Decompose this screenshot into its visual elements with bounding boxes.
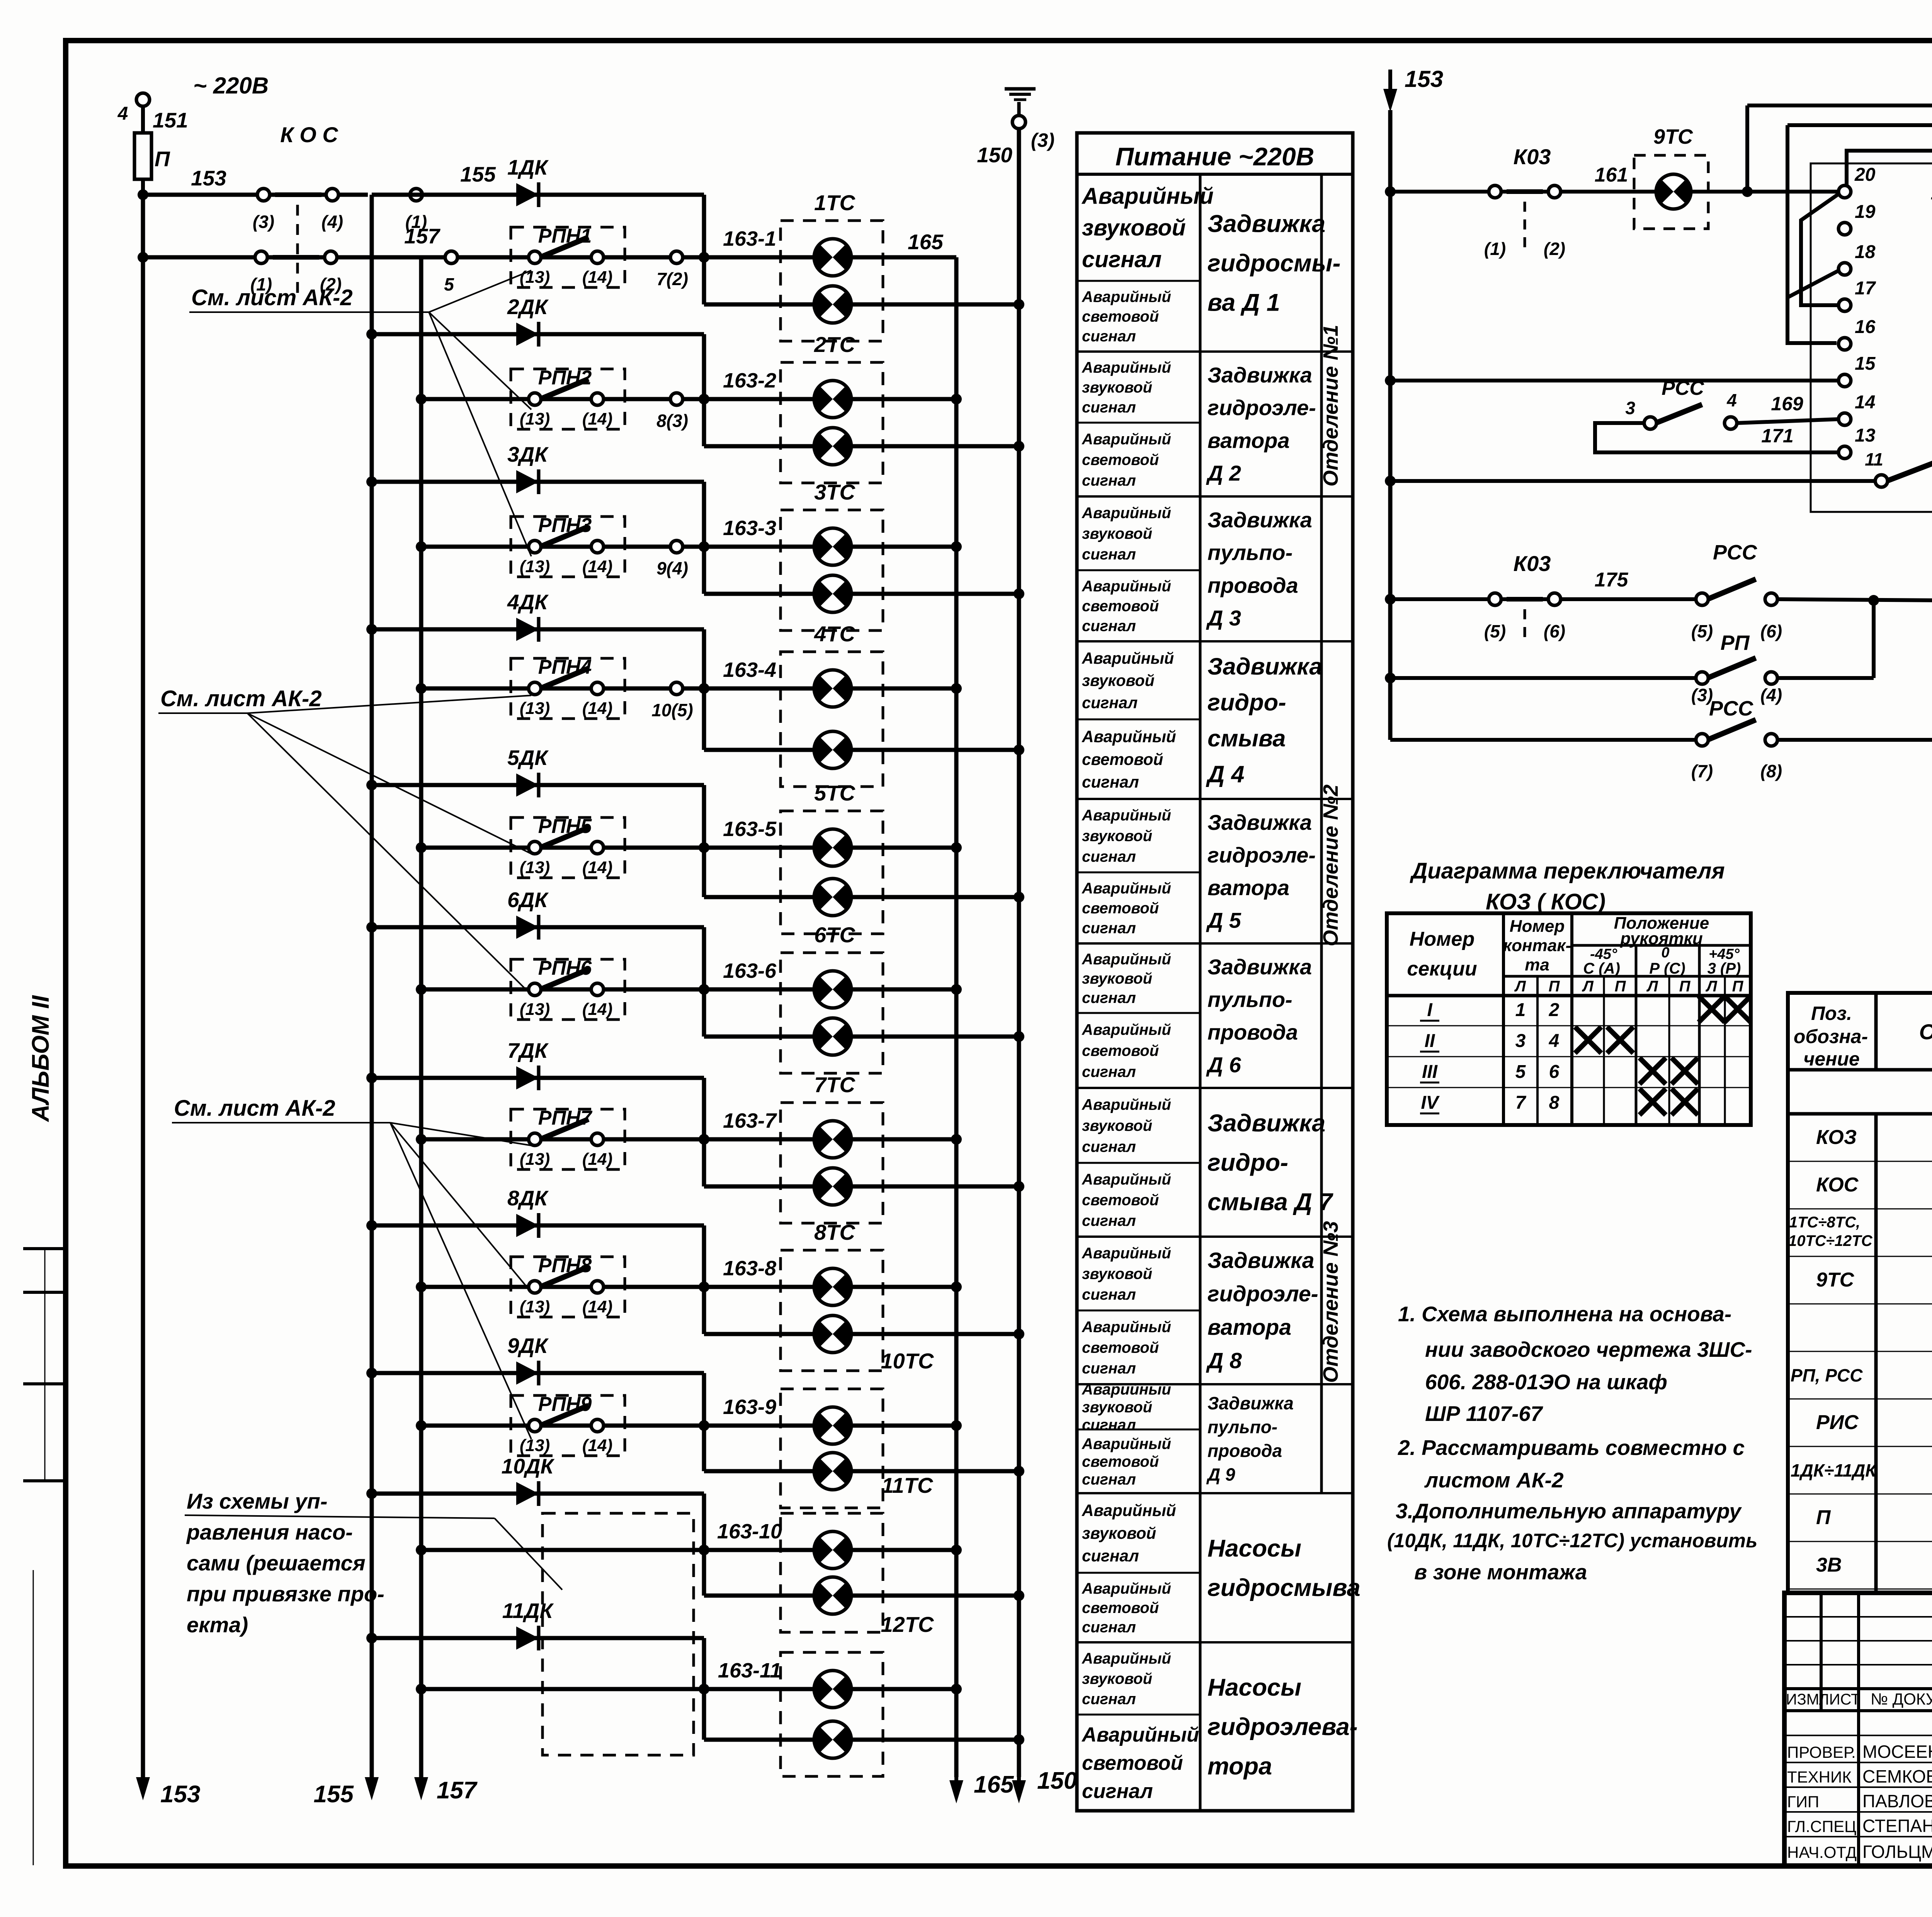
svg-text:7: 7 bbox=[1515, 1093, 1527, 1113]
svg-text:гидро-: гидро- bbox=[1207, 689, 1286, 716]
svg-text:световой: световой bbox=[1082, 1599, 1159, 1616]
svg-text:(4): (4) bbox=[1760, 685, 1782, 705]
svg-text:секции: секции bbox=[1407, 958, 1477, 980]
svg-text:Аварийный: Аварийный bbox=[1082, 1021, 1171, 1038]
svg-text:(13): (13) bbox=[520, 1297, 550, 1316]
svg-text:Задвижка: Задвижка bbox=[1207, 955, 1312, 979]
svg-text:(2): (2) bbox=[1544, 239, 1565, 259]
svg-text:4: 4 bbox=[1726, 390, 1737, 410]
svg-text:РСС: РСС bbox=[1713, 541, 1757, 564]
svg-text:ГИП: ГИП bbox=[1787, 1793, 1819, 1811]
svg-text:5: 5 bbox=[1515, 1062, 1526, 1082]
svg-text:Задвижка: Задвижка bbox=[1207, 1248, 1314, 1273]
svg-text:Л: Л bbox=[1705, 978, 1718, 995]
svg-text:ИЗМ: ИЗМ bbox=[1786, 1691, 1819, 1708]
svg-text:163-2: 163-2 bbox=[723, 369, 776, 392]
svg-text:(6): (6) bbox=[1760, 621, 1782, 641]
svg-text:7ТС: 7ТС bbox=[814, 1072, 855, 1097]
svg-text:сигнал: сигнал bbox=[1082, 694, 1138, 712]
svg-text:Из схемы уп-: Из схемы уп- bbox=[187, 1489, 328, 1513]
svg-text:(13): (13) bbox=[520, 268, 550, 287]
svg-text:8ДК: 8ДК bbox=[507, 1186, 549, 1210]
svg-text:ва Д 1: ва Д 1 bbox=[1207, 289, 1280, 316]
svg-text:153: 153 bbox=[1405, 66, 1443, 92]
svg-text:Аварийный: Аварийный bbox=[1082, 807, 1171, 824]
svg-text:равления насо-: равления насо- bbox=[186, 1520, 353, 1544]
svg-text:III: III bbox=[1422, 1062, 1438, 1082]
svg-text:П: П bbox=[1615, 978, 1626, 995]
svg-text:2. Рассматривать совместно с: 2. Рассматривать совместно с bbox=[1398, 1436, 1745, 1460]
svg-text:звуковой: звуковой bbox=[1082, 1117, 1152, 1134]
svg-text:9(4): 9(4) bbox=[656, 558, 688, 578]
svg-text:пульпо-: пульпо- bbox=[1207, 987, 1293, 1011]
svg-text:К О С: К О С bbox=[280, 122, 338, 147]
svg-text:153: 153 bbox=[160, 1781, 200, 1808]
svg-text:световой: световой bbox=[1082, 308, 1159, 325]
svg-text:гидроэлева-: гидроэлева- bbox=[1207, 1713, 1358, 1740]
svg-text:4ДК: 4ДК bbox=[507, 590, 549, 614]
svg-text:165: 165 bbox=[908, 230, 944, 254]
svg-text:9ТС: 9ТС bbox=[1816, 1269, 1855, 1291]
svg-text:Насосы: Насосы bbox=[1207, 1674, 1301, 1701]
svg-text:1ТС÷8ТС,: 1ТС÷8ТС, bbox=[1789, 1214, 1860, 1231]
svg-text:РПН9: РПН9 bbox=[538, 1393, 592, 1416]
svg-text:13: 13 bbox=[1855, 425, 1876, 446]
svg-text:(1): (1) bbox=[1484, 239, 1506, 259]
svg-text:Диаграмма переключателя: Диаграмма переключателя bbox=[1409, 858, 1725, 884]
svg-text:163-11: 163-11 bbox=[718, 1659, 781, 1682]
svg-text:нии заводского чертежа 3ШС-: нии заводского чертежа 3ШС- bbox=[1425, 1337, 1752, 1361]
svg-text:11ТС: 11ТС bbox=[882, 1473, 934, 1497]
svg-text:Р (С): Р (С) bbox=[1649, 960, 1685, 977]
svg-text:П: П bbox=[1816, 1506, 1831, 1529]
svg-text:сигнал: сигнал bbox=[1082, 1547, 1139, 1565]
svg-text:гидросмы-: гидросмы- bbox=[1207, 250, 1340, 277]
svg-text:163-6: 163-6 bbox=[723, 959, 777, 982]
svg-text:звуковой: звуковой bbox=[1082, 828, 1152, 845]
svg-text:ТЕХНИК: ТЕХНИК bbox=[1787, 1768, 1852, 1786]
svg-text:(14): (14) bbox=[582, 1150, 612, 1169]
svg-text:П: П bbox=[155, 147, 170, 171]
svg-text:Аварийный: Аварийный bbox=[1082, 431, 1171, 448]
svg-text:15: 15 bbox=[1855, 353, 1876, 374]
svg-text:тора: тора bbox=[1207, 1753, 1272, 1780]
svg-text:19: 19 bbox=[1855, 202, 1876, 222]
svg-text:8(3): 8(3) bbox=[656, 411, 688, 431]
svg-text:сигнал: сигнал bbox=[1082, 247, 1162, 272]
svg-text:ГЛ.СПЕЦ.: ГЛ.СПЕЦ. bbox=[1787, 1817, 1861, 1835]
svg-text:сигнал: сигнал bbox=[1082, 773, 1139, 791]
svg-text:сигнал: сигнал bbox=[1082, 1619, 1136, 1636]
svg-text:звуковой: звуковой bbox=[1082, 1524, 1156, 1542]
svg-text:0: 0 bbox=[1661, 945, 1669, 961]
svg-text:провода: провода bbox=[1207, 1020, 1298, 1044]
svg-text:КОС: КОС bbox=[1816, 1174, 1859, 1196]
svg-text:(5): (5) bbox=[1484, 621, 1506, 641]
svg-text:ПАВЛОВА: ПАВЛОВА bbox=[1862, 1791, 1932, 1811]
svg-text:СЕМКОВА: СЕМКОВА bbox=[1862, 1766, 1932, 1786]
svg-text:РСС: РСС bbox=[1709, 697, 1753, 720]
svg-text:РПН4: РПН4 bbox=[538, 656, 592, 678]
svg-text:3ДК: 3ДК bbox=[507, 442, 549, 466]
svg-text:5ТС: 5ТС bbox=[814, 781, 855, 805]
svg-text:Аварийный: Аварийный bbox=[1082, 649, 1174, 667]
svg-text:1ДК÷11ДК: 1ДК÷11ДК bbox=[1791, 1460, 1877, 1480]
svg-text:(5): (5) bbox=[1691, 621, 1713, 641]
svg-text:4ТС: 4ТС bbox=[814, 622, 855, 646]
svg-text:163-8: 163-8 bbox=[723, 1257, 776, 1280]
svg-text:4: 4 bbox=[117, 104, 128, 124]
svg-text:световой: световой bbox=[1082, 750, 1163, 768]
svg-text:606. 288-01ЭО на шкаф: 606. 288-01ЭО на шкаф bbox=[1425, 1370, 1667, 1394]
svg-text:чение: чение bbox=[1803, 1048, 1860, 1070]
svg-text:1ДК: 1ДК bbox=[507, 155, 549, 179]
svg-text:Аварийный: Аварийный bbox=[1081, 184, 1214, 209]
svg-text:РПН2: РПН2 bbox=[538, 367, 592, 389]
svg-text:световой: световой bbox=[1082, 1339, 1159, 1356]
svg-text:световой: световой bbox=[1082, 452, 1159, 469]
svg-text:гидроэле-: гидроэле- bbox=[1207, 843, 1316, 867]
svg-text:звуковой: звуковой bbox=[1082, 379, 1152, 396]
svg-text:П: П bbox=[1679, 978, 1691, 995]
svg-text:световой: световой bbox=[1082, 1192, 1159, 1209]
svg-text:Насосы: Насосы bbox=[1207, 1535, 1301, 1562]
svg-text:(4): (4) bbox=[321, 212, 343, 232]
svg-text:звуковой: звуковой bbox=[1082, 1266, 1152, 1283]
svg-text:175: 175 bbox=[1595, 569, 1629, 591]
svg-text:ватора: ватора bbox=[1207, 876, 1289, 900]
svg-text:163-3: 163-3 bbox=[723, 517, 776, 540]
svg-text:163-1: 163-1 bbox=[723, 227, 776, 250]
svg-text:сами (решается: сами (решается bbox=[187, 1551, 366, 1575]
svg-text:7(2): 7(2) bbox=[656, 269, 688, 289]
svg-text:СТЕПАНЕНКО: СТЕПАНЕНКО bbox=[1862, 1816, 1932, 1836]
svg-text:К03: К03 bbox=[1514, 144, 1551, 169]
svg-text:1ТС: 1ТС bbox=[814, 190, 855, 215]
svg-text:Аварийный: Аварийный bbox=[1082, 880, 1171, 897]
svg-text:смыва: смыва bbox=[1207, 725, 1286, 752]
svg-text:ПРОВЕР.: ПРОВЕР. bbox=[1787, 1743, 1856, 1761]
svg-text:№ ДОКУМ.: № ДОКУМ. bbox=[1871, 1690, 1932, 1708]
svg-text:звуковой: звуковой bbox=[1082, 525, 1152, 542]
svg-text:ГОЛЬЦМАН: ГОЛЬЦМАН bbox=[1862, 1842, 1932, 1862]
svg-text:пульпо-: пульпо- bbox=[1207, 540, 1293, 565]
svg-text:АЛЬБОМ II: АЛЬБОМ II bbox=[27, 995, 54, 1122]
svg-text:листом АК-2: листом АК-2 bbox=[1424, 1468, 1564, 1492]
svg-text:(13): (13) bbox=[520, 410, 550, 428]
svg-text:Аварийный: Аварийный bbox=[1082, 1319, 1171, 1336]
svg-text:Д 8: Д 8 bbox=[1206, 1349, 1242, 1373]
svg-text:(10ДК, 11ДК, 10ТС÷12ТС) устано: (10ДК, 11ДК, 10ТС÷12ТС) установить bbox=[1387, 1530, 1757, 1552]
svg-text:РПН6: РПН6 bbox=[538, 957, 592, 979]
svg-text:1: 1 bbox=[1515, 1000, 1526, 1020]
svg-text:Обозначение: Обозначение bbox=[1919, 1020, 1932, 1044]
svg-text:сигнал: сигнал bbox=[1082, 989, 1136, 1006]
svg-text:РП: РП bbox=[1721, 631, 1750, 654]
svg-text:при привязке про-: при привязке про- bbox=[187, 1582, 384, 1606]
svg-text:163-9: 163-9 bbox=[723, 1395, 776, 1419]
svg-text:2: 2 bbox=[1549, 1000, 1560, 1020]
svg-text:~ 220В: ~ 220В bbox=[193, 73, 269, 99]
svg-text:ватора: ватора bbox=[1207, 428, 1290, 452]
svg-text:11ДК: 11ДК bbox=[502, 1599, 554, 1623]
svg-text:МОСЕЕНКО: МОСЕЕНКО bbox=[1862, 1742, 1932, 1762]
svg-text:ЛИСТ: ЛИСТ bbox=[1819, 1691, 1861, 1708]
svg-text:3.Дополнительную аппаратуру: 3.Дополнительную аппаратуру bbox=[1396, 1499, 1742, 1523]
svg-text:Д 2: Д 2 bbox=[1206, 461, 1241, 485]
svg-text:163-5: 163-5 bbox=[723, 817, 777, 841]
svg-text:Задвижка: Задвижка bbox=[1207, 811, 1312, 834]
svg-text:10ДК: 10ДК bbox=[502, 1454, 555, 1478]
svg-text:(13): (13) bbox=[520, 1436, 550, 1455]
svg-text:Д 9: Д 9 bbox=[1206, 1464, 1235, 1484]
svg-text:Аварийный: Аварийный bbox=[1082, 951, 1171, 968]
svg-text:(14): (14) bbox=[582, 1297, 612, 1316]
svg-text:9ТС: 9ТС bbox=[1653, 125, 1693, 148]
svg-text:Аварийный: Аварийный bbox=[1082, 578, 1171, 595]
svg-text:157: 157 bbox=[404, 224, 440, 248]
svg-text:звуковой: звуковой bbox=[1082, 215, 1186, 241]
svg-text:сигнал: сигнал bbox=[1082, 1691, 1136, 1708]
svg-text:Аварийный: Аварийный bbox=[1081, 1723, 1199, 1746]
svg-text:(13): (13) bbox=[520, 858, 550, 877]
svg-text:сигнал: сигнал bbox=[1082, 919, 1136, 936]
svg-text:гидросмыва: гидросмыва bbox=[1207, 1574, 1361, 1601]
svg-text:Д 4: Д 4 bbox=[1206, 761, 1245, 788]
svg-text:П: П bbox=[1732, 978, 1744, 995]
svg-text:(14): (14) bbox=[582, 858, 612, 877]
svg-text:(6): (6) bbox=[1544, 621, 1565, 641]
svg-text:Аварийный: Аварийный bbox=[1082, 1501, 1176, 1519]
svg-text:Аварийный: Аварийный bbox=[1082, 359, 1171, 376]
svg-text:в зоне монтажа: в зоне монтажа bbox=[1414, 1560, 1587, 1584]
svg-text:II: II bbox=[1425, 1031, 1435, 1051]
svg-text:6ДК: 6ДК bbox=[507, 888, 549, 912]
svg-text:Задвижка: Задвижка bbox=[1207, 508, 1312, 532]
svg-text:КОЗ: КОЗ bbox=[1816, 1126, 1857, 1149]
svg-text:сигнал: сигнал bbox=[1082, 1780, 1153, 1803]
svg-text:(14): (14) bbox=[582, 1000, 612, 1019]
svg-text:151: 151 bbox=[153, 108, 188, 132]
svg-text:3 (Р): 3 (Р) bbox=[1708, 960, 1741, 977]
svg-text:171: 171 bbox=[1761, 425, 1793, 447]
svg-text:смыва Д 7: смыва Д 7 bbox=[1207, 1189, 1333, 1216]
svg-text:сигнал: сигнал bbox=[1082, 1417, 1136, 1434]
svg-text:161: 161 bbox=[1595, 164, 1628, 186]
svg-text:5: 5 bbox=[444, 274, 454, 294]
svg-text:та: та bbox=[1525, 955, 1549, 974]
svg-text:См. лист АК-2: См. лист АК-2 bbox=[160, 686, 322, 711]
svg-text:169: 169 bbox=[1771, 393, 1803, 415]
svg-text:Отделение №3: Отделение №3 bbox=[1319, 1221, 1342, 1383]
svg-text:(13): (13) bbox=[520, 557, 550, 576]
svg-text:Аварийный: Аварийный bbox=[1082, 1650, 1171, 1667]
svg-text:НАЧ.ОТД: НАЧ.ОТД bbox=[1787, 1843, 1857, 1861]
svg-text:екта): екта) bbox=[187, 1613, 248, 1637]
svg-text:Л: Л bbox=[1646, 978, 1658, 995]
svg-text:Аварийный: Аварийный bbox=[1082, 505, 1171, 522]
svg-text:сигнал: сигнал bbox=[1082, 1212, 1136, 1229]
svg-text:сигнал: сигнал bbox=[1082, 546, 1136, 563]
svg-text:световой: световой bbox=[1082, 1752, 1183, 1774]
svg-text:2ТС: 2ТС bbox=[814, 332, 855, 357]
svg-text:11: 11 bbox=[1865, 449, 1883, 469]
svg-text:(14): (14) bbox=[582, 557, 612, 576]
svg-text:150: 150 bbox=[1037, 1767, 1077, 1794]
svg-text:10ТС÷12ТС: 10ТС÷12ТС bbox=[1788, 1232, 1873, 1249]
svg-text:С (А): С (А) bbox=[1583, 960, 1620, 977]
svg-text:1. Схема выполнена на основа-: 1. Схема выполнена на основа- bbox=[1398, 1302, 1731, 1326]
svg-text:РПН8: РПН8 bbox=[538, 1254, 592, 1277]
svg-text:Задвижка: Задвижка bbox=[1207, 1393, 1294, 1413]
svg-text:(7): (7) bbox=[1691, 761, 1713, 781]
svg-text:звуковой: звуковой bbox=[1082, 1399, 1152, 1416]
svg-text:7ДК: 7ДК bbox=[507, 1038, 549, 1062]
svg-text:световой: световой bbox=[1082, 1453, 1159, 1470]
svg-text:гидроэле-: гидроэле- bbox=[1207, 1282, 1318, 1307]
svg-text:РПН1: РПН1 bbox=[538, 225, 592, 247]
svg-text:ватора: ватора bbox=[1207, 1315, 1291, 1340]
svg-text:8: 8 bbox=[1549, 1093, 1560, 1113]
svg-text:РП, РСС: РП, РСС bbox=[1791, 1365, 1863, 1385]
svg-text:16: 16 bbox=[1855, 317, 1876, 337]
svg-text:сигнал: сигнал bbox=[1082, 1471, 1136, 1488]
svg-text:Номер: Номер bbox=[1510, 917, 1565, 936]
svg-text:гидро-: гидро- bbox=[1207, 1149, 1288, 1176]
svg-text:I: I bbox=[1427, 1000, 1433, 1020]
svg-text:сигнал: сигнал bbox=[1082, 617, 1136, 634]
svg-text:Л: Л bbox=[1514, 978, 1526, 995]
svg-text:сигнал: сигнал bbox=[1082, 1360, 1136, 1377]
svg-text:КОЗ ( КОС): КОЗ ( КОС) bbox=[1486, 889, 1605, 914]
svg-text:3: 3 bbox=[1515, 1031, 1526, 1051]
svg-text:Поз.: Поз. bbox=[1811, 1003, 1852, 1024]
svg-text:163-4: 163-4 bbox=[723, 658, 776, 681]
svg-text:10(5): 10(5) bbox=[651, 700, 693, 720]
svg-text:(13): (13) bbox=[520, 1150, 550, 1169]
svg-text:пульпо-: пульпо- bbox=[1207, 1417, 1277, 1437]
svg-text:(3): (3) bbox=[253, 212, 274, 232]
svg-text:световой: световой bbox=[1082, 598, 1159, 615]
svg-text:10: 10 bbox=[1931, 183, 1932, 204]
svg-text:звуковой: звуковой bbox=[1082, 1671, 1152, 1688]
svg-text:Д 5: Д 5 bbox=[1206, 908, 1242, 932]
svg-text:световой: световой bbox=[1082, 900, 1159, 917]
svg-text:(13): (13) bbox=[520, 699, 550, 718]
svg-text:157: 157 bbox=[437, 1777, 478, 1804]
svg-text:IV: IV bbox=[1421, 1093, 1440, 1113]
svg-text:П: П bbox=[1549, 978, 1560, 995]
svg-text:сигнал: сигнал bbox=[1082, 1064, 1136, 1081]
svg-text:14: 14 bbox=[1855, 392, 1875, 413]
svg-text:9ДК: 9ДК bbox=[507, 1334, 549, 1358]
svg-text:Задвижка: Задвижка bbox=[1207, 363, 1312, 387]
svg-text:163-10: 163-10 bbox=[717, 1520, 782, 1543]
svg-text:Аварийный: Аварийный bbox=[1082, 1436, 1171, 1453]
svg-text:сигнал: сигнал bbox=[1082, 472, 1136, 489]
svg-text:Аварийный: Аварийный bbox=[1082, 289, 1171, 306]
svg-text:Аварийный: Аварийный bbox=[1082, 1381, 1171, 1398]
svg-text:контак-: контак- bbox=[1503, 936, 1571, 955]
svg-text:обозна-: обозна- bbox=[1794, 1026, 1868, 1047]
svg-text:Отделение №2: Отделение №2 bbox=[1319, 785, 1342, 947]
svg-text:(14): (14) bbox=[582, 410, 612, 428]
svg-text:(3): (3) bbox=[1031, 129, 1054, 151]
svg-text:провода: провода bbox=[1207, 1441, 1282, 1461]
svg-text:гидроэле-: гидроэле- bbox=[1207, 396, 1316, 420]
svg-text:3В: 3В bbox=[1816, 1554, 1842, 1576]
svg-text:(14): (14) bbox=[582, 699, 612, 718]
svg-text:ШР 1107-67: ШР 1107-67 bbox=[1425, 1402, 1543, 1426]
svg-text:провода: провода bbox=[1207, 573, 1298, 597]
svg-text:6ТС: 6ТС bbox=[814, 923, 855, 947]
svg-text:8ТС: 8ТС bbox=[814, 1220, 855, 1244]
svg-text:Питание ~220В: Питание ~220В bbox=[1116, 142, 1315, 171]
svg-text:Задвижка: Задвижка bbox=[1207, 653, 1322, 680]
svg-text:20: 20 bbox=[1854, 165, 1876, 185]
svg-text:150: 150 bbox=[977, 143, 1012, 167]
svg-text:155: 155 bbox=[460, 162, 496, 186]
svg-text:3: 3 bbox=[1625, 398, 1635, 418]
svg-text:153: 153 bbox=[191, 166, 226, 190]
svg-text:РСС: РСС bbox=[1662, 377, 1704, 399]
svg-text:Задвижка: Задвижка bbox=[1207, 1110, 1325, 1137]
svg-text:5ДК: 5ДК bbox=[507, 746, 549, 770]
svg-text:155: 155 bbox=[314, 1781, 354, 1808]
svg-text:Задвижка: Задвижка bbox=[1207, 211, 1325, 238]
svg-text:К03: К03 bbox=[1514, 551, 1551, 576]
svg-text:6: 6 bbox=[1549, 1062, 1560, 1082]
svg-text:РПН3: РПН3 bbox=[538, 514, 592, 537]
svg-text:Д 3: Д 3 bbox=[1206, 606, 1241, 630]
svg-text:3ТС: 3ТС bbox=[814, 480, 855, 504]
svg-text:звуковой: звуковой bbox=[1082, 671, 1155, 689]
svg-text:(13): (13) bbox=[520, 1000, 550, 1019]
svg-text:4: 4 bbox=[1549, 1031, 1560, 1051]
svg-text:165: 165 bbox=[974, 1771, 1014, 1798]
svg-text:световой: световой bbox=[1082, 1042, 1159, 1059]
svg-text:Аварийный: Аварийный bbox=[1082, 727, 1176, 746]
svg-text:РПН5: РПН5 bbox=[538, 815, 592, 838]
svg-text:(14): (14) bbox=[582, 268, 612, 287]
svg-text:163-7: 163-7 bbox=[723, 1109, 777, 1132]
svg-text:17: 17 bbox=[1855, 278, 1876, 299]
svg-text:См. лист АК-2: См. лист АК-2 bbox=[174, 1096, 335, 1121]
svg-text:Отделение №1: Отделение №1 bbox=[1319, 325, 1342, 487]
svg-text:(14): (14) bbox=[582, 1436, 612, 1455]
svg-text:Аварийный: Аварийный bbox=[1082, 1580, 1171, 1597]
svg-text:Номер: Номер bbox=[1410, 928, 1475, 950]
svg-text:Аварийный: Аварийный bbox=[1082, 1171, 1171, 1188]
svg-text:сигнал: сигнал bbox=[1082, 1139, 1136, 1156]
svg-text:См. лист АК-2: См. лист АК-2 bbox=[191, 285, 353, 310]
svg-text:сигнал: сигнал bbox=[1082, 1286, 1136, 1303]
svg-text:Л: Л bbox=[1582, 978, 1594, 995]
svg-text:12ТС: 12ТС bbox=[881, 1612, 934, 1637]
svg-text:сигнал: сигнал bbox=[1082, 848, 1136, 865]
svg-text:сигнал: сигнал bbox=[1082, 328, 1136, 345]
svg-text:сигнал: сигнал bbox=[1082, 399, 1136, 416]
svg-text:Д 6: Д 6 bbox=[1206, 1053, 1242, 1077]
svg-text:Аварийный: Аварийный bbox=[1082, 1245, 1171, 1262]
svg-text:РИС: РИС bbox=[1816, 1411, 1859, 1434]
svg-text:18: 18 bbox=[1855, 242, 1876, 262]
svg-text:(8): (8) bbox=[1760, 761, 1782, 781]
svg-text:2ДК: 2ДК bbox=[507, 295, 549, 319]
svg-text:Аварийный: Аварийный bbox=[1082, 1096, 1171, 1113]
svg-text:звуковой: звуковой bbox=[1082, 970, 1152, 987]
svg-text:10ТС: 10ТС bbox=[881, 1349, 934, 1373]
